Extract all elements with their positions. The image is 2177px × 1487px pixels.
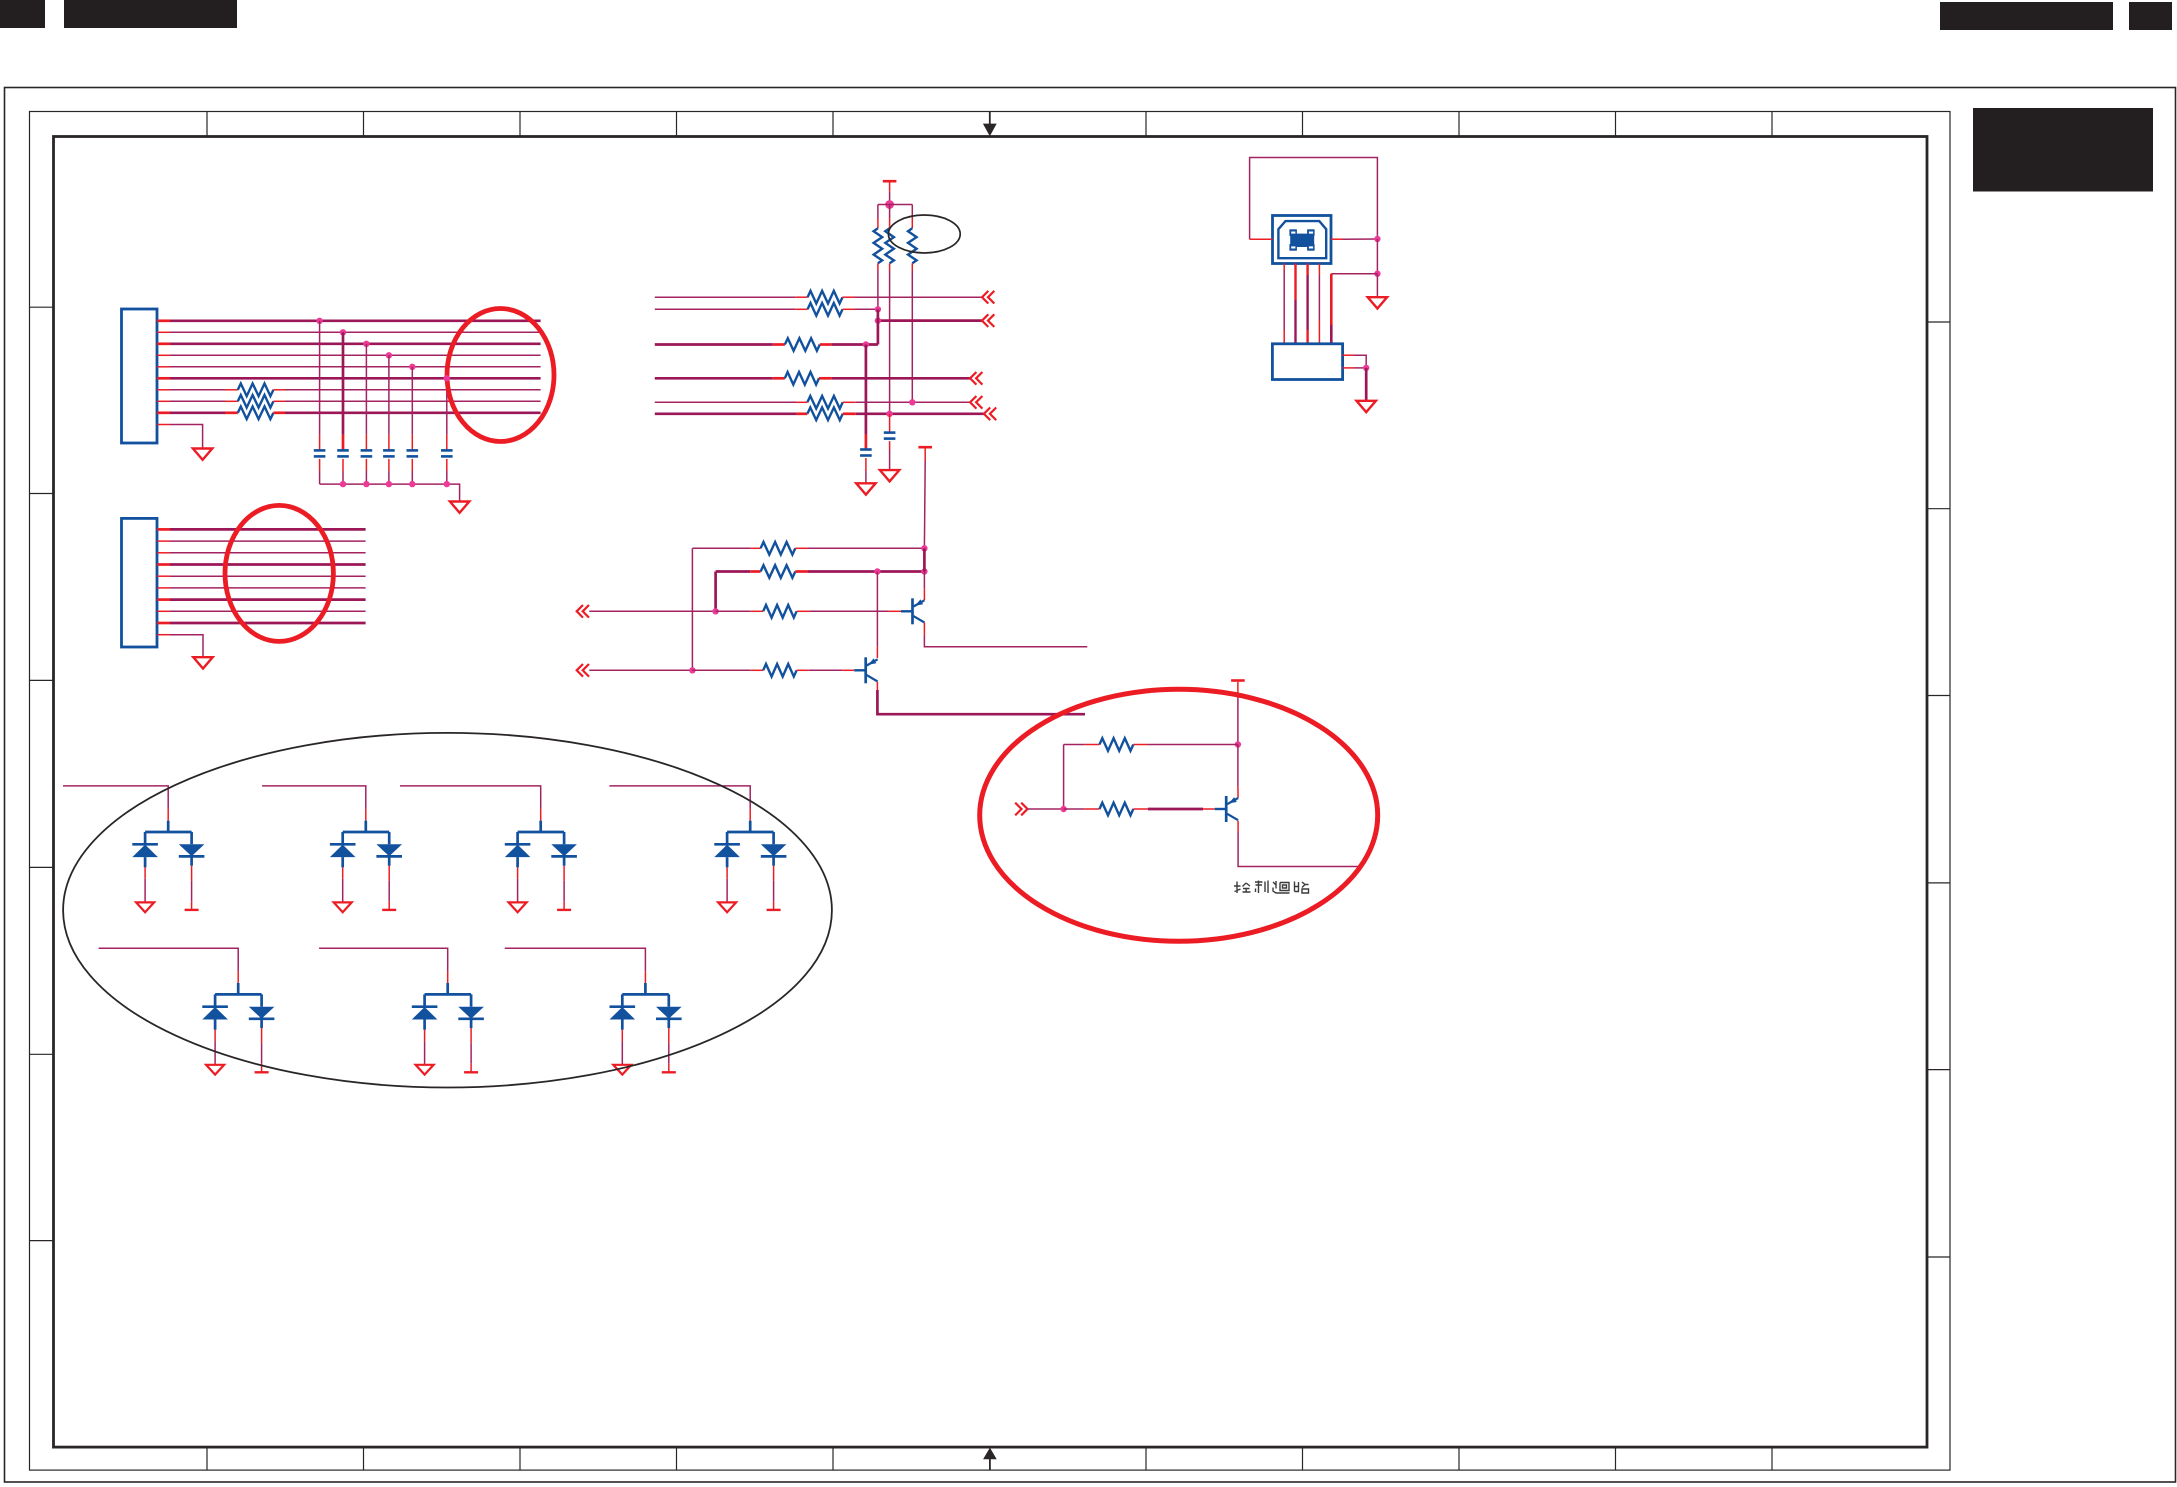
transistor Q3 emitter	[1227, 798, 1238, 804]
red lead stub D5b	[261, 1028, 263, 1043]
transistor Q2 collector	[867, 675, 878, 681]
red lead stub D1b	[191, 866, 193, 881]
wire Rb to Q2 emitter	[876, 572, 878, 647]
wire R23 bottom	[911, 263, 913, 270]
resistor R12 right stub	[273, 400, 285, 402]
wire D6b to rail	[470, 1043, 472, 1063]
ground under D3a	[509, 902, 527, 912]
net wire into D2	[262, 786, 366, 809]
red lead stub D4b	[773, 866, 775, 881]
resistor R42	[761, 565, 796, 578]
resistor R11 left stub	[225, 389, 238, 391]
capacitor C6	[441, 449, 453, 452]
connector J2	[122, 518, 158, 647]
ground under D5a	[206, 1065, 224, 1075]
wire row F cont	[843, 401, 856, 403]
wire row Rd cont	[692, 669, 750, 671]
off-page arrow input PD	[1015, 803, 1027, 816]
wire USB mount pin lower	[1343, 367, 1354, 369]
wire J1 pin5	[157, 366, 170, 368]
wire D4b to rail	[773, 881, 775, 901]
net wire into D7	[505, 948, 646, 971]
wire USB to ground 1	[1376, 274, 1378, 298]
highlight ellipse over J2 bus	[225, 505, 333, 641]
resistor R13 right stub	[273, 411, 285, 414]
off-page arrow row F	[970, 396, 982, 409]
right ruler ticks	[1927, 322, 1950, 1257]
inner drawing border	[54, 137, 1928, 1448]
resistor R41	[761, 542, 796, 555]
diode D1a (to GND)	[132, 843, 158, 846]
highlight ellipse over J1 bus	[447, 309, 554, 442]
node Rb junction 2	[921, 568, 927, 574]
wire row Rf cont	[1133, 744, 1148, 746]
ground under D7a	[613, 1065, 631, 1075]
wire input row cont	[1064, 808, 1085, 810]
connector USB inner outline	[1278, 221, 1326, 258]
power rail tail under D4b	[773, 901, 775, 910]
wire Q1 collector out	[923, 623, 925, 636]
wire USB loop	[1250, 158, 1378, 240]
capacitor C7	[860, 448, 872, 451]
wire row Ra	[692, 547, 750, 549]
connector USB icon	[1289, 229, 1314, 250]
wire row Rf	[1064, 744, 1085, 746]
transistor Q3 base lead	[1215, 808, 1227, 810]
power rail VCC2	[918, 446, 932, 449]
wire J1 pin6	[157, 377, 170, 380]
wire tap T1 down	[319, 321, 321, 435]
node row G junction	[886, 411, 892, 417]
wire C2 to bus	[342, 459, 344, 471]
diode D2a (to GND)	[330, 843, 356, 846]
wire C4 to bus	[388, 459, 390, 471]
node row C junction	[875, 317, 881, 323]
resistor R23	[908, 228, 917, 263]
wire row B cont	[843, 308, 856, 310]
redaction box top-right 1	[1940, 2, 2113, 30]
red lead stub D5a	[214, 1030, 216, 1041]
ground bus wire	[320, 484, 460, 501]
red lead stub D3a	[517, 867, 519, 878]
wire J2 pin2	[157, 540, 170, 542]
wire Rf corner down	[1063, 745, 1065, 810]
power rail tail under D6b	[470, 1064, 472, 1073]
capacitor C4	[383, 449, 395, 452]
wire D2a to ground	[342, 879, 344, 903]
off-page arrow row A	[982, 291, 994, 304]
wire USB mount to ground	[1365, 368, 1368, 401]
wire C8 to ground	[889, 441, 891, 450]
wire C3 to bus	[365, 459, 367, 471]
transistor Q1 emitter	[914, 600, 925, 606]
capacitor C8	[884, 431, 896, 434]
power rail VCC1	[883, 180, 897, 183]
top ruler ticks	[207, 112, 1772, 137]
capacitor C1	[314, 449, 326, 452]
resistor R12	[238, 395, 274, 408]
wire row Rc	[589, 610, 715, 612]
ground under D4a	[718, 902, 736, 912]
wire D3a to ground	[517, 879, 519, 903]
wire VCC2 to Q1 emitter	[923, 548, 926, 571]
node Rc junction	[712, 608, 718, 614]
wire R52 to Q3 base	[1133, 808, 1148, 810]
diode pair D6 top rail	[425, 983, 472, 1007]
diode pair D4 top rail	[727, 821, 774, 845]
ground J2	[193, 657, 212, 668]
wire D5b to rail	[261, 1043, 263, 1063]
wire Q2 collector out	[876, 682, 878, 690]
wire row Rb cont	[795, 570, 808, 573]
wire tap T5 down	[411, 367, 413, 435]
wire row G	[655, 412, 797, 415]
transistor Q1 collector	[914, 616, 925, 622]
node tap T6	[444, 375, 450, 381]
ground under D2a	[334, 902, 352, 912]
wire R22 bottom	[889, 263, 891, 270]
ground J1	[193, 449, 212, 460]
wire USB mount pin upper	[1343, 354, 1354, 356]
node row B junction	[875, 306, 881, 312]
wire J1 pin8 cont	[285, 400, 541, 402]
capacitor C5	[407, 449, 419, 452]
resistor R22	[885, 228, 894, 263]
red lead stub D1	[167, 809, 169, 821]
node Rd junction	[689, 667, 695, 673]
ground USB 1	[1368, 297, 1387, 308]
resistor R52	[1100, 803, 1134, 816]
node bus junction 1	[340, 481, 346, 487]
wire R22 to C8	[889, 414, 891, 433]
wire D1b to rail	[191, 881, 193, 901]
wire C7 to ground	[865, 458, 867, 471]
wire J1 pin1	[157, 319, 170, 322]
transistor Q1 base lead	[901, 610, 913, 612]
diode pair D1 top rail	[145, 821, 192, 845]
wire row Rc cont	[716, 610, 751, 612]
net wire into D6	[319, 948, 448, 971]
resistor R44	[763, 664, 796, 677]
wire C6 to bus	[446, 459, 448, 471]
transistor Q1 base bar	[911, 598, 914, 624]
wire tap T3 down	[365, 344, 367, 435]
wire VCC1 rail spread	[878, 204, 912, 206]
power rail tail under D3b	[563, 901, 565, 910]
wire Rc to Q1 base	[797, 610, 810, 612]
wire J1 ground stub	[157, 424, 170, 426]
wire tap T2 down	[342, 332, 345, 434]
wire J2 ground stub	[157, 634, 170, 636]
resistor R32	[808, 303, 843, 316]
red lead stub D6b	[470, 1028, 472, 1043]
bottom ruler ticks	[207, 1447, 1772, 1470]
wire to R22 top	[889, 205, 891, 219]
redaction box top-left 2	[64, 0, 237, 28]
transistor Q2 emitter	[867, 659, 878, 665]
wire J1 pin4	[157, 354, 170, 356]
wire VCC3 to Q3 emitter	[1237, 745, 1239, 787]
wire USB right pin	[1331, 238, 1343, 240]
wire USB pin wire 3	[1306, 264, 1308, 276]
wire J1 pin9 cont	[285, 411, 541, 414]
node tap T5	[409, 364, 415, 370]
wire row A cont	[843, 296, 856, 298]
wire row D	[655, 343, 773, 346]
transistor Q2 base bar	[864, 657, 867, 683]
node tap T3	[363, 341, 369, 347]
resistor R13 left stub	[225, 411, 238, 414]
wire row C	[878, 319, 982, 322]
wire row E	[655, 377, 773, 380]
diode pair D5 top rail	[215, 983, 262, 1007]
node tap T6 over ellipse	[444, 375, 450, 381]
connector USB footprint box	[1272, 344, 1342, 380]
transistor Q3 collector	[1227, 814, 1238, 820]
diode pair D7 top rail	[622, 983, 669, 1007]
wire J1 pin2	[157, 331, 170, 333]
wire J1 pin7 cont	[285, 389, 541, 391]
diode pair D3 top rail	[518, 821, 565, 845]
off-page arrow row C	[982, 314, 994, 327]
diode D5b (to VCC)	[249, 1007, 275, 1019]
wire J2 pin4	[157, 563, 170, 566]
wire J1 pin3	[157, 342, 170, 345]
connector USB outer shell	[1273, 216, 1332, 264]
wire USB pin wire 1	[1283, 264, 1285, 271]
wire USB pin wire 4	[1318, 264, 1320, 276]
red lead stub D4a	[726, 867, 728, 878]
node USB mount junction	[1363, 365, 1369, 371]
wire USB shield branch	[1331, 273, 1377, 275]
node tap T2	[340, 329, 346, 335]
label control circuit text	[1234, 881, 1309, 894]
diode D4b (to VCC)	[761, 844, 787, 856]
wire D3b to rail	[563, 881, 565, 901]
node VCC1 junction	[885, 200, 894, 209]
red lead stub D3b	[563, 866, 565, 881]
wire row F	[655, 401, 797, 403]
power rail tail under D7b	[668, 1064, 670, 1073]
resistor R33	[785, 338, 820, 351]
wire D1a to ground	[144, 879, 146, 903]
diode D7b (to VCC)	[656, 1007, 682, 1019]
wire USB vbus down	[1376, 239, 1378, 274]
diode D5a (to GND)	[202, 1005, 228, 1008]
wire D7b to rail	[668, 1043, 670, 1063]
resistor R36	[807, 408, 842, 421]
node bus junction 3	[386, 481, 392, 487]
wire C1 to bus	[319, 459, 321, 471]
node USB shield junction	[1374, 271, 1380, 277]
power rail tail under D2b	[388, 901, 390, 910]
wire USB shield down	[1330, 274, 1333, 325]
wire Rd to Q2 base	[797, 669, 809, 671]
redaction box top-left 1	[0, 0, 45, 28]
node row F junction	[909, 399, 915, 405]
diode pair D2 top rail	[343, 821, 390, 845]
node row D junction	[863, 341, 869, 347]
power rail tail under D5b	[261, 1064, 263, 1073]
left ruler ticks	[30, 307, 54, 1240]
node Rf junction	[1235, 741, 1241, 747]
power rail VCC3	[1231, 679, 1245, 682]
wire to R23 top	[911, 205, 913, 219]
wire J2 pin9	[157, 622, 170, 625]
off-page arrow row G	[984, 408, 996, 421]
wire D2b to rail	[388, 881, 390, 901]
net wire into D1	[63, 786, 168, 809]
ground under D1a	[136, 902, 154, 912]
resistor R12 left stub	[225, 400, 238, 402]
diode D2b (to VCC)	[376, 844, 402, 856]
node bus junction 2	[363, 481, 369, 487]
node bus junction 4	[409, 481, 415, 487]
diode D6b (to VCC)	[458, 1007, 484, 1019]
red lead stub D2b	[388, 866, 390, 881]
red lead stub D6	[447, 971, 449, 983]
top center marker arrow	[989, 112, 991, 126]
wire J2 pin8	[157, 610, 170, 612]
wire J2 pin3	[157, 552, 170, 554]
highlight small ellipse over R23	[888, 215, 960, 253]
resistor R13	[238, 407, 274, 420]
ground USB 2	[1357, 401, 1376, 412]
diode D7a (to GND)	[610, 1005, 636, 1008]
node bus junction 5	[444, 481, 450, 487]
wire USB pin wire 2	[1294, 264, 1296, 301]
net wire into D3	[400, 786, 541, 809]
highlight ellipse around ESD array	[63, 733, 832, 1088]
wire row Rd	[589, 669, 692, 671]
title block redaction box	[1973, 108, 2153, 192]
wire D6a to ground	[424, 1041, 426, 1065]
wire Rb corner down	[714, 572, 717, 612]
wire Q3 collector out	[1237, 821, 1239, 833]
resistor R31	[808, 291, 843, 304]
wire J1 pin7	[157, 389, 170, 391]
wire Ra corner down	[691, 548, 693, 670]
resistor R11	[238, 384, 274, 397]
red lead stub D4	[749, 809, 751, 821]
transistor Q3 base bar	[1225, 796, 1228, 822]
red lead stub D2a	[342, 867, 344, 878]
wire to R21 top	[877, 205, 879, 219]
node input junction	[1060, 806, 1066, 812]
wire D4a to ground	[726, 879, 728, 903]
off-page arrow row Rc	[577, 605, 589, 618]
red lead stub D2	[365, 809, 367, 821]
wire V1 vertical	[877, 309, 880, 344]
resistor R21	[874, 228, 883, 263]
resistor R43	[763, 605, 796, 618]
wire J1 pin8	[157, 400, 170, 402]
wire J2 pin7	[157, 598, 170, 601]
wire row Ra cont	[795, 547, 808, 549]
capacitor C3	[361, 449, 373, 452]
net wire into D5	[99, 948, 239, 971]
node USB vbus junction	[1374, 236, 1380, 242]
wire tap T4 down	[388, 355, 390, 434]
node tap T4	[386, 352, 392, 358]
ground under C7	[856, 483, 875, 494]
node Ra junction	[921, 545, 927, 551]
wire R21 bottom	[877, 263, 879, 270]
diode D4a (to GND)	[714, 843, 740, 846]
wire row G cont	[843, 412, 856, 415]
transistor Q2 base lead	[854, 669, 866, 671]
off-page arrow row E	[970, 372, 982, 385]
resistor R34	[785, 372, 819, 385]
red lead stub D7a	[621, 1030, 623, 1041]
red lead stub D3	[540, 809, 542, 821]
resistor R35	[807, 396, 842, 409]
redaction box top-right 2	[2129, 2, 2172, 30]
diode D6a (to GND)	[412, 1005, 438, 1008]
wire USB left pin stub	[1250, 238, 1273, 240]
wire row Rb	[716, 570, 751, 573]
red lead stub D7b	[668, 1028, 670, 1043]
wire row E cont	[819, 377, 832, 380]
wire tap T6 down	[446, 378, 448, 434]
red lead stub D5	[237, 971, 239, 983]
wire row D cont	[820, 343, 832, 346]
wire J2 pin5	[157, 575, 170, 577]
ground under C8	[880, 470, 899, 481]
ground under D6a	[416, 1065, 434, 1075]
resistor R11 right stub	[273, 389, 285, 391]
net wire into D4	[609, 786, 750, 809]
wire J1 pin9	[157, 411, 170, 414]
wire J2 pin1	[157, 528, 170, 531]
wire input row	[1028, 808, 1064, 810]
diode D1b (to VCC)	[179, 844, 205, 856]
diode D3b (to VCC)	[551, 844, 577, 856]
node tap T1	[316, 318, 322, 324]
power rail tail under D1b	[191, 901, 193, 910]
wire D5a to ground	[214, 1041, 216, 1065]
wire D7a to ground	[621, 1041, 623, 1065]
ground bus triangle	[450, 502, 469, 513]
wire row B	[655, 308, 796, 310]
wire J2 pin6	[157, 587, 170, 589]
bottom center marker arrow	[989, 1459, 991, 1470]
red lead stub D1a	[144, 867, 146, 878]
highlight ellipse control circuit	[980, 689, 1378, 941]
wire C5 to bus	[411, 459, 413, 471]
diode D3a (to GND)	[505, 843, 531, 846]
node Rb junction 1	[874, 568, 880, 574]
connector J1	[122, 309, 158, 443]
resistor R51	[1100, 738, 1134, 751]
red lead stub D6a	[424, 1030, 426, 1041]
off-page arrow row Rd	[577, 664, 589, 677]
red lead stub D7	[644, 971, 646, 983]
capacitor C2	[337, 449, 349, 452]
wire row D drop	[865, 345, 868, 435]
wire row A	[655, 296, 796, 298]
